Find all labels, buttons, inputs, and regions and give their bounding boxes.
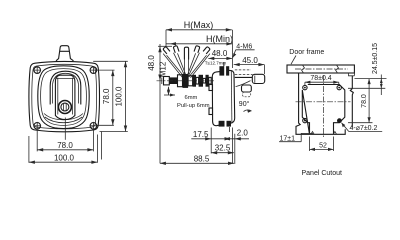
svg-text:88.5: 88.5 <box>194 154 210 163</box>
center lines <box>296 101 351 103</box>
dim 24.5+-0.15 <box>348 43 387 95</box>
corner screw BR <box>90 122 98 130</box>
svg-text:T≤12.7mm: T≤12.7mm <box>205 60 227 65</box>
dim 4-dia7 <box>342 123 383 132</box>
bottom bolt <box>219 120 231 132</box>
svg-text:H(Max): H(Max) <box>184 20 214 30</box>
dim 32.5 <box>211 144 234 155</box>
svg-text:2.0: 2.0 <box>237 128 249 137</box>
paddle hood arch <box>50 71 81 104</box>
dim 78.0 right <box>348 79 373 123</box>
top tab <box>56 46 74 61</box>
dim 17.5 and 2.0 <box>191 128 249 140</box>
svg-text:24.5±0.15: 24.5±0.15 <box>372 43 379 74</box>
dim 88.5 <box>160 154 234 165</box>
svg-text:H(Min): H(Min) <box>206 34 233 44</box>
svg-text:78.0: 78.0 <box>57 141 73 150</box>
wing bracket left end <box>162 77 170 85</box>
svg-text:52: 52 <box>319 143 327 150</box>
center seam line <box>64 118 66 140</box>
90 degree label + arrow <box>239 100 252 113</box>
door frame strip <box>287 65 354 76</box>
right extension line of H dims <box>231 30 233 68</box>
corner screw BL <box>33 122 41 130</box>
dim 78+-0.4 <box>305 75 339 85</box>
svg-text:100.0: 100.0 <box>54 153 75 162</box>
cutout octagon <box>302 85 345 135</box>
dim 100.0 vertical <box>115 61 128 131</box>
dim 17+-1 <box>279 133 313 142</box>
lock cylinder <box>58 101 71 114</box>
ext lines right dims <box>93 61 128 131</box>
dish inner lip <box>41 69 87 126</box>
dim 100.0 bottom <box>29 153 98 164</box>
dim 4-M6 label <box>233 44 255 58</box>
corner screw TR <box>90 66 98 74</box>
keeper arm closed position <box>242 85 252 97</box>
corner screw TL <box>33 66 41 74</box>
corner holes <box>303 85 342 123</box>
ext lines bottom dims <box>29 130 102 163</box>
svg-text:M12: M12 <box>159 61 168 77</box>
paddle handle <box>55 75 75 119</box>
svg-text:Door frame: Door frame <box>289 49 324 56</box>
svg-text:78.0: 78.0 <box>361 94 368 108</box>
svg-text:78±0.4: 78±0.4 <box>310 75 331 82</box>
dim 45.0 <box>234 56 265 74</box>
latch body outline <box>29 61 100 131</box>
wing positions fan <box>163 46 210 78</box>
dish bottom arc <box>45 117 82 123</box>
svg-text:Pull-up 6mm: Pull-up 6mm <box>177 103 210 109</box>
svg-text:45.0: 45.0 <box>242 56 258 65</box>
dim 48.0 top right <box>208 49 232 60</box>
door frame label <box>289 49 324 64</box>
dim 78.0 bottom <box>37 141 93 151</box>
6mm pull-up dim <box>164 87 210 109</box>
svg-text:Panel Cutout: Panel Cutout <box>302 170 343 177</box>
bottom dims middle view: ext lines <box>211 128 235 165</box>
panel edges <box>296 73 353 134</box>
dim 78.0 vertical <box>102 70 115 125</box>
left vertical 48 dim line <box>147 30 172 164</box>
svg-text:48.0: 48.0 <box>147 55 156 71</box>
dim 52 <box>310 137 334 152</box>
dim H(Max) <box>166 20 232 31</box>
body left tabs <box>209 85 213 115</box>
paddle recess dish outer lip <box>38 66 89 129</box>
svg-text:78.0: 78.0 <box>102 88 111 104</box>
shaft center line <box>157 80 215 82</box>
svg-text:6mm: 6mm <box>185 95 198 101</box>
keeper arm open position <box>235 70 265 87</box>
dim H(Min) <box>166 34 233 46</box>
shaft nuts and washers <box>169 74 211 88</box>
top M6 bolt <box>219 62 229 76</box>
housing body side <box>212 70 234 125</box>
svg-text:100.0: 100.0 <box>115 86 124 107</box>
svg-text:90°: 90° <box>239 100 250 108</box>
